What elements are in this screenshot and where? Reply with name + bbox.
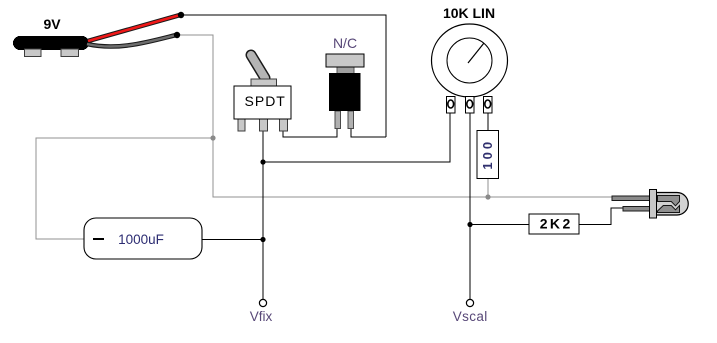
node gray J3: [210, 135, 215, 140]
wire resistor R2 to LED cathode: [579, 208, 623, 225]
node J1: [260, 159, 265, 164]
switch S1 SPDT: [234, 55, 291, 131]
wire capacitor positive to J2: [202, 239, 263, 241]
wire potentiometer wiper to Vscal terminal: [469, 112, 471, 300]
resistor R1: [477, 131, 499, 179]
terminal Vfix: [259, 299, 266, 306]
wire potentiometer pin3 to resistor R1: [487, 112, 489, 130]
wire red battery positive lead: [88, 15, 180, 41]
node J5: [467, 222, 472, 227]
svg-text:SPDT: SPDT: [245, 93, 286, 109]
node J2: [260, 237, 265, 242]
svg-text:Vscal: Vscal: [453, 309, 488, 324]
svg-text:Vfix: Vfix: [250, 309, 273, 324]
node gray J4: [485, 194, 490, 199]
wire switch pin2 to Vfix terminal: [262, 130, 264, 300]
capacitor C1: [84, 218, 202, 259]
LED D1: [612, 190, 688, 219]
svg-text:100: 100: [480, 139, 495, 170]
svg-text:2K2: 2K2: [540, 216, 573, 232]
wire J5 to resistor R2: [470, 224, 529, 226]
wire dark battery negative lead: [87, 35, 176, 47]
wire pushbutton left pin to switch pin3: [283, 128, 337, 137]
wire top rail: [181, 15, 386, 137]
pushbutton S2: [326, 54, 364, 129]
wire gray battery negative to rail: [177, 35, 213, 138]
node battery negative junction: [174, 32, 180, 38]
svg-text:1000uF: 1000uF: [118, 232, 164, 247]
svg-text:9V: 9V: [43, 16, 61, 32]
potentiometer VR1: [432, 24, 508, 113]
resistor R2: [529, 214, 579, 234]
node battery positive junction: [178, 12, 184, 18]
svg-text:N/C: N/C: [333, 35, 357, 51]
wire rail to pushbutton right pin: [351, 128, 386, 137]
wire gray resistor R1 to rail: [487, 178, 489, 197]
svg-text:10K LIN: 10K LIN: [443, 5, 495, 21]
wire J1 to potentiometer pin1: [263, 112, 450, 162]
wire gray rail to LED anode: [213, 138, 612, 197]
wire gray left branch to capacitor: [36, 138, 213, 239]
terminal Vscal: [466, 299, 473, 306]
battery B1 body: [13, 36, 89, 57]
